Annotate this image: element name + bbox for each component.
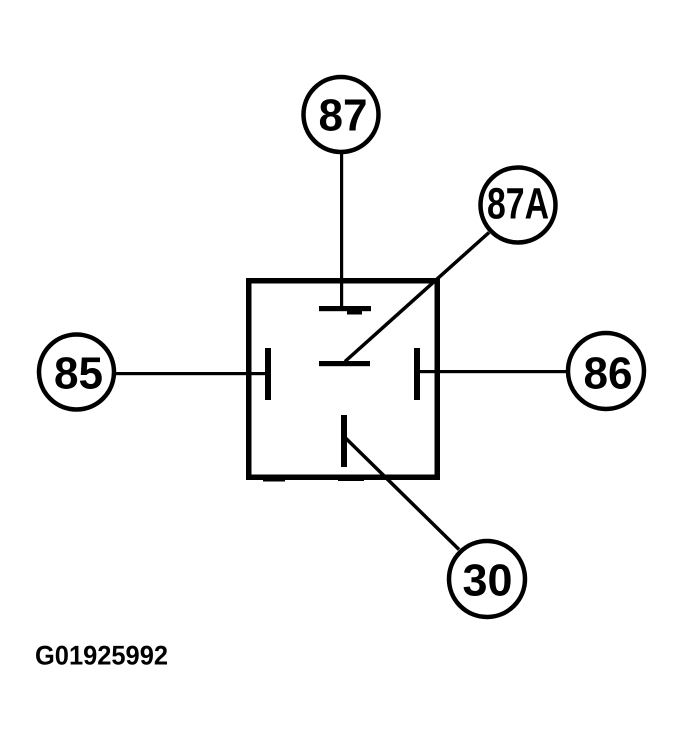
terminal circle 85 <box>39 335 114 410</box>
pin 30 contact bar <box>341 415 347 467</box>
pin 87A contact bar <box>319 361 370 366</box>
terminal circle 86 <box>568 333 644 409</box>
relay body box K1 <box>249 281 438 478</box>
wire 85 lead (horizontal from circle 85 to pin) <box>114 372 266 375</box>
terminal circle 87 <box>304 77 379 152</box>
terminal circle 30 <box>449 541 525 617</box>
svg-text:87A: 87A <box>487 180 549 229</box>
svg-text:30: 30 <box>463 555 513 606</box>
pin 85 contact bar <box>265 348 271 400</box>
svg-text:85: 85 <box>54 348 103 399</box>
pin 86 contact bar <box>414 348 420 400</box>
svg-text:G01925992: G01925992 <box>35 641 168 671</box>
wire 87A lead (diagonal from circle 87A to pin) <box>345 233 489 362</box>
pin 87 contact bar <box>319 306 371 311</box>
wire 30 lead (diagonal from pin to circle 30) <box>345 437 460 550</box>
terminal circle 87A <box>481 168 556 243</box>
wire 86 lead (horizontal from pin to circle 86) <box>418 370 567 373</box>
wire 87 lead (vertical from circle 87 to pin) <box>340 152 343 308</box>
svg-text:87: 87 <box>319 90 368 141</box>
svg-text:86: 86 <box>584 348 633 399</box>
